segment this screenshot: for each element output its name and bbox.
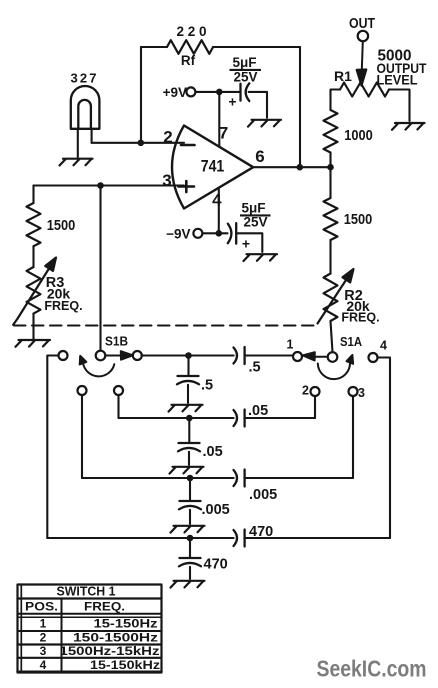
svg-text:LEVEL: LEVEL xyxy=(377,73,418,88)
wire R2 to S1A pole xyxy=(331,321,333,352)
capacitor series 470 row4 xyxy=(234,530,245,547)
svg-text:470: 470 xyxy=(204,557,228,573)
svg-text:S1A: S1A xyxy=(340,335,362,349)
R2 wiper arrow xyxy=(318,269,354,324)
wire row4 xyxy=(47,537,390,539)
wire row3 xyxy=(82,477,353,479)
node output junction A xyxy=(297,164,304,171)
wire output node up to 1000 xyxy=(329,153,331,168)
wire lamp right lead xyxy=(91,129,93,143)
ground cap C1 xyxy=(248,120,281,127)
node pin4 junction xyxy=(216,230,223,237)
wire between 1500 and R3 xyxy=(32,246,34,267)
wire lamp left lead xyxy=(77,129,79,157)
wire +9V rail xyxy=(195,91,239,93)
ground R3 xyxy=(16,340,51,347)
node pin2 junction xyxy=(138,140,145,147)
node pin3 junction xyxy=(97,182,104,189)
svg-text:.005: .005 xyxy=(249,487,277,503)
resistor 1000 xyxy=(324,110,338,153)
S1B wiper arrow xyxy=(106,351,133,360)
S1B contact pos1 xyxy=(133,351,142,360)
svg-text:7: 7 xyxy=(219,124,228,143)
svg-text:+: + xyxy=(228,94,236,110)
svg-text:25V: 25V xyxy=(233,70,257,85)
S1B contact pos4 xyxy=(59,351,68,360)
switch S1A pole xyxy=(328,352,338,362)
wire pin7 xyxy=(218,92,220,147)
wire pin3 node to S1B pole xyxy=(99,186,101,351)
svg-text:SWITCH 1: SWITCH 1 xyxy=(57,585,116,599)
terminal -9V xyxy=(193,229,202,238)
svg-text:220: 220 xyxy=(177,24,207,39)
ground shunt 470 xyxy=(171,581,205,588)
svg-text:470: 470 xyxy=(249,524,273,540)
capacitor series 0.5 row1 xyxy=(234,347,245,364)
svg-text:−9V: −9V xyxy=(166,227,190,242)
wire row1 xyxy=(142,354,293,356)
wire left branch top xyxy=(32,186,34,204)
capacitor C2 5uF 25V bottom xyxy=(228,223,236,243)
wire S1B pos2 to row2 xyxy=(117,395,119,418)
underline 5uF top xyxy=(230,69,262,71)
svg-text:1: 1 xyxy=(40,617,47,631)
wire 1000 to R1 left xyxy=(331,90,341,111)
wire shunt 0.5 to ground xyxy=(187,385,189,403)
ground lamp xyxy=(60,159,93,166)
svg-text:1000: 1000 xyxy=(344,127,373,144)
wire pin2 input xyxy=(92,142,184,144)
wire cap C2 to ground xyxy=(236,233,262,252)
ground shunt 0.005 xyxy=(171,526,205,533)
R3 wiper arrow xyxy=(13,258,56,325)
svg-text:2: 2 xyxy=(163,127,172,146)
lamp 327 xyxy=(71,86,100,129)
wire shunt cap 0.005 lead xyxy=(189,478,191,501)
wire row2 xyxy=(119,417,316,419)
ground shunt 0.05 xyxy=(170,467,204,474)
wire 1500 to R2 xyxy=(329,240,331,274)
op-amp minus input mark xyxy=(181,144,195,147)
wire shunt cap 0.5 lead xyxy=(187,356,189,377)
wire output pin6 xyxy=(253,166,330,168)
wire S1B pos3 to row3 xyxy=(81,395,83,478)
S1A contact pos2 xyxy=(311,387,320,396)
svg-text:25V: 25V xyxy=(243,215,267,230)
node output junction B xyxy=(327,164,334,171)
capacitor shunt 0.05 xyxy=(178,443,200,451)
svg-text:15-150Hz: 15-150Hz xyxy=(94,617,158,631)
node row2 junction xyxy=(186,415,193,422)
svg-text:1: 1 xyxy=(287,338,294,352)
S1B contact pos2 xyxy=(114,386,123,395)
svg-text:.05: .05 xyxy=(248,403,268,419)
svg-text:POS.: POS. xyxy=(25,600,58,614)
svg-text:4: 4 xyxy=(40,658,47,672)
S1B contact pos3 xyxy=(78,386,87,395)
svg-text:2: 2 xyxy=(302,384,309,398)
op-amp U1 741 xyxy=(172,126,253,209)
node row3 junction xyxy=(187,475,194,482)
node pin7 junction xyxy=(216,89,223,96)
wire pin3 input xyxy=(34,184,185,186)
wire shunt 470 to ground xyxy=(189,567,191,579)
svg-text:1500: 1500 xyxy=(47,217,76,234)
potentiometer R1 5000 xyxy=(340,83,389,97)
svg-text:.005: .005 xyxy=(202,502,230,518)
wire shunt cap 470 lead xyxy=(189,538,191,558)
wire shunt 0.005 to ground xyxy=(189,510,191,524)
S1A contact pos3 xyxy=(349,387,358,396)
wire feedback right vertical xyxy=(299,47,301,167)
capacitor shunt 470 xyxy=(179,558,201,566)
ground shunt 0.5 xyxy=(169,405,203,412)
svg-text:.5: .5 xyxy=(201,378,213,394)
wire -9V rail xyxy=(202,232,227,234)
terminal OUT xyxy=(358,31,368,41)
resistor 1500 right xyxy=(324,198,338,240)
node row1 junction xyxy=(185,352,192,359)
terminal +9V xyxy=(186,87,195,96)
svg-text:6: 6 xyxy=(255,147,264,166)
switch S1B pole xyxy=(96,351,106,361)
table SWITCH 1 xyxy=(18,585,162,673)
OUT wiper arrow xyxy=(357,42,367,86)
svg-text:+9V: +9V xyxy=(163,85,187,100)
svg-text:3: 3 xyxy=(162,171,171,190)
potentiometer R2 20k xyxy=(324,274,338,321)
wire output node down to 1500 xyxy=(329,167,331,198)
wire cap C1 to ground xyxy=(249,92,267,118)
svg-text:.05: .05 xyxy=(203,444,223,460)
wire R1 right to ground xyxy=(389,90,410,122)
resistor Rf 220 xyxy=(167,40,213,54)
op-amp plus input mark xyxy=(179,181,195,192)
wire R3 to ground xyxy=(32,314,34,339)
wire shunt 0.05 to ground xyxy=(188,452,190,465)
underline 5uF bottom xyxy=(240,214,271,216)
node row4 junction xyxy=(187,535,194,542)
svg-text:+: + xyxy=(242,236,250,252)
svg-text:4: 4 xyxy=(212,191,222,210)
svg-text:.5: .5 xyxy=(249,360,261,376)
capacitor C1 5uF 25V top xyxy=(241,83,250,101)
wire S1A pos4 to row4 right xyxy=(378,358,391,539)
S1A contact pos4 xyxy=(369,353,378,362)
resistor 1500 left xyxy=(27,203,41,246)
wire S1B pos4 to row4 left xyxy=(47,356,58,539)
svg-text:2: 2 xyxy=(40,631,47,645)
ground R1 xyxy=(392,123,425,130)
svg-text:150-1500Hz: 150-1500Hz xyxy=(73,631,158,645)
svg-text:SeekIC.com: SeekIC.com xyxy=(317,656,427,682)
svg-text:FREQ.: FREQ. xyxy=(84,600,125,614)
wire S1A pos3 to row3 xyxy=(352,396,354,478)
svg-text:4: 4 xyxy=(380,339,387,353)
wire feedback top xyxy=(141,46,300,48)
capacitor series 0.05 row2 xyxy=(234,410,245,427)
potentiometer R3 20k xyxy=(27,267,41,314)
svg-text:1500Hz-15kHz: 1500Hz-15kHz xyxy=(60,644,160,658)
S1A contact pos1 xyxy=(293,352,302,361)
wire feedback left vertical xyxy=(140,47,142,143)
svg-text:5μF: 5μF xyxy=(241,201,265,216)
dashed gang line xyxy=(14,325,318,327)
capacitor shunt 0.5 xyxy=(177,376,199,384)
svg-text:R1: R1 xyxy=(334,68,352,84)
wire pin4 xyxy=(218,188,220,234)
ground cap C2 xyxy=(244,254,278,261)
svg-text:327: 327 xyxy=(71,71,97,86)
S1A rotation arc xyxy=(318,355,353,379)
S1B rotation arc xyxy=(80,356,115,376)
svg-text:5μF: 5μF xyxy=(232,55,256,70)
svg-text:741: 741 xyxy=(201,157,225,176)
capacitor shunt 0.005 xyxy=(179,501,201,509)
svg-text:S1B: S1B xyxy=(105,335,128,349)
svg-text:15-150kHz: 15-150kHz xyxy=(90,658,160,672)
wire shunt cap 0.05 lead xyxy=(188,418,190,443)
svg-text:3: 3 xyxy=(358,386,365,400)
svg-text:Rf: Rf xyxy=(181,53,196,68)
svg-text:FREQ.: FREQ. xyxy=(341,311,379,325)
svg-text:1500: 1500 xyxy=(344,211,373,228)
wire S1A pos2 to row2 xyxy=(314,396,316,418)
svg-text:OUT: OUT xyxy=(349,16,375,32)
S1A wiper arrow xyxy=(303,352,328,360)
capacitor series 0.005 row3 xyxy=(234,470,245,487)
svg-text:FREQ.: FREQ. xyxy=(44,299,82,313)
svg-text:3: 3 xyxy=(40,644,47,658)
